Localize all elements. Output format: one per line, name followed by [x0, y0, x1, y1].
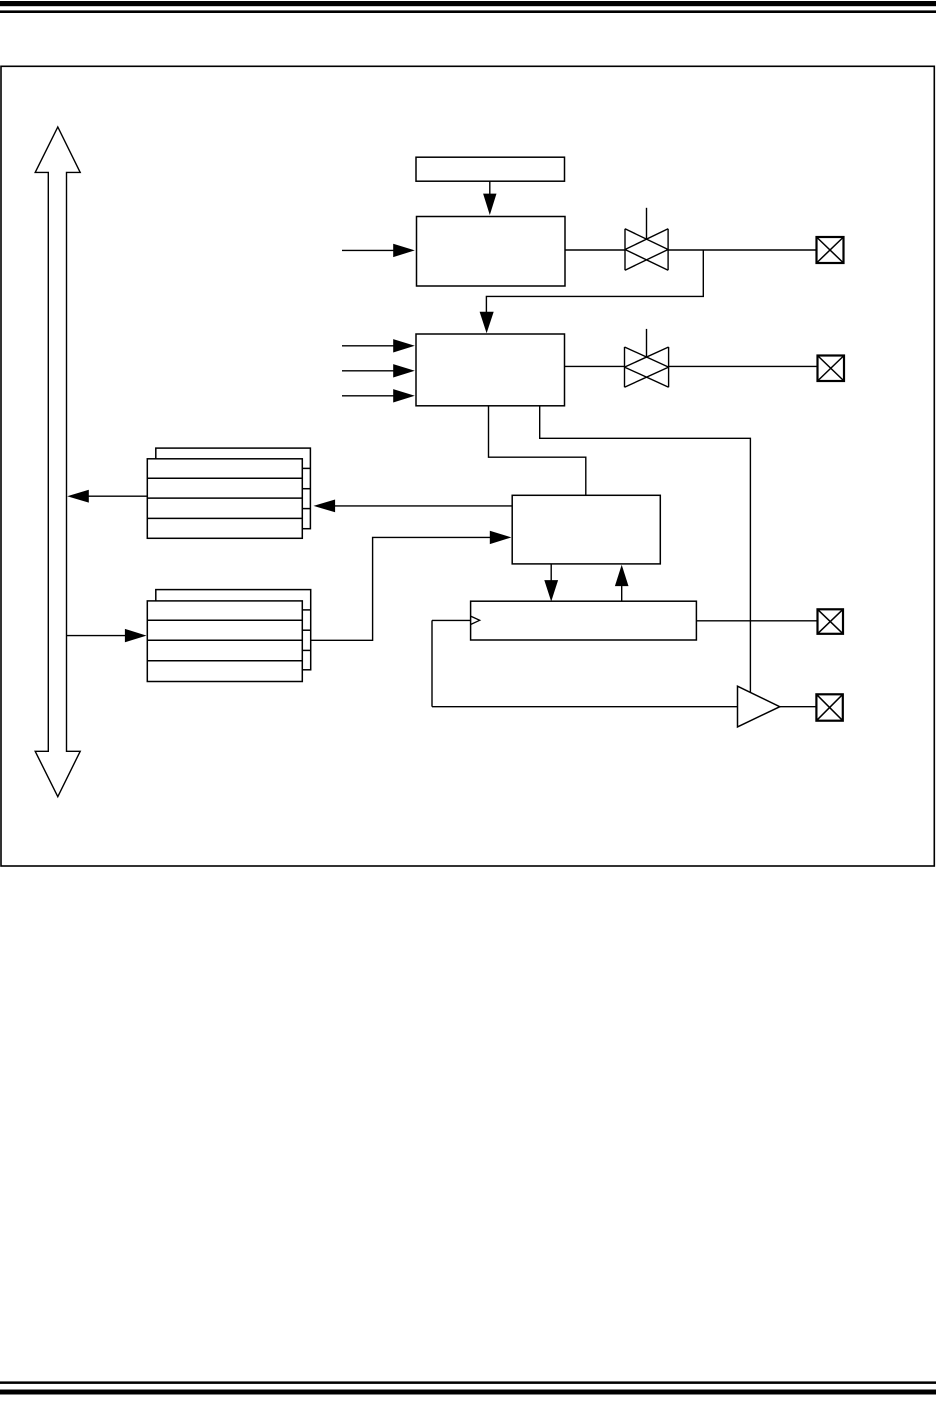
top rule thick — [0, 1, 936, 6]
arrowhead into B3 top — [480, 312, 494, 334]
amplifier A1 (triangle) — [738, 686, 780, 727]
diagram frame — [1, 66, 934, 866]
wire S1 to bus — [88, 495, 147, 497]
wire B1 to B2 — [489, 181, 491, 196]
arrowhead into bus (left) — [67, 490, 89, 503]
wire feedback to amplifier — [432, 706, 738, 708]
block B3 — [416, 334, 565, 406]
wire B5 up to B4 — [621, 585, 623, 601]
block B4 — [512, 495, 660, 564]
bottom rule thin — [0, 1381, 936, 1384]
stack S2 edge tick 3 — [302, 649, 310, 651]
stack S1 edge tick 1 — [302, 467, 310, 469]
port P2 (crossed box) — [818, 356, 845, 382]
port P4 (crossed box) — [816, 694, 842, 720]
wire A1 to port P4 — [780, 706, 816, 708]
wire V2 to port P2 — [669, 365, 817, 367]
top rule thin — [0, 10, 936, 13]
block B2 — [417, 217, 566, 287]
arrowhead into B2 left — [393, 244, 415, 257]
wire B4 to S1 — [334, 505, 512, 507]
arrowhead into B4 bottom (up arrow) — [615, 565, 629, 586]
input wire 1 into B3 — [342, 345, 395, 347]
input wire 2 into B3 — [342, 370, 395, 372]
bottom rule thick — [0, 1390, 936, 1395]
arrowhead into B4 left — [490, 531, 512, 544]
wire S2 to B4 — [311, 537, 492, 640]
valve V1 — [625, 208, 668, 270]
bus arrow (tall vertical double-headed arrow) — [35, 127, 80, 797]
stack S2 row divider 3 — [147, 660, 302, 662]
port P3 (crossed box) — [818, 609, 844, 634]
stack S1 edge tick 2 — [302, 488, 310, 490]
wire bus to S2 — [67, 635, 127, 637]
wire B4 down to B5 — [550, 564, 552, 581]
open arrowhead at B5 clock input — [471, 616, 480, 624]
stack S2 edge tick 2 — [302, 629, 310, 631]
stack S1 row divider 2 — [147, 497, 302, 499]
wire B5 to port P3 — [696, 620, 817, 622]
stack S2 edge tick 1 — [302, 609, 310, 611]
wire B3 bottom-left to B4 top — [489, 406, 586, 496]
wire feedback vertical — [431, 620, 433, 706]
stack S1 back plate — [156, 448, 311, 529]
arrowhead 2 into B3 — [393, 364, 415, 377]
arrowhead into B2 top — [483, 194, 496, 215]
arrowhead into B5 top — [544, 580, 558, 601]
stack S2 row divider 1 — [147, 619, 302, 621]
arrowhead 3 into B3 — [393, 389, 415, 402]
stack S1 front plate — [147, 459, 302, 539]
port P1 (crossed box) — [817, 237, 844, 263]
wire V1 to port P1 — [668, 249, 816, 251]
stack S1 row divider 1 — [147, 477, 302, 479]
stack S2 front plate — [147, 601, 302, 682]
stack S1 row divider 3 — [147, 517, 302, 519]
stack S2 row divider 2 — [147, 639, 302, 641]
input wire 3 into B3 — [342, 395, 395, 397]
wire B2 to valve V1 — [565, 249, 625, 251]
arrowhead into S2 (right) — [125, 629, 147, 642]
stack S1 edge tick 3 — [302, 508, 310, 510]
block B1 (top small box) — [416, 157, 565, 181]
wire B3 to valve V2 — [565, 365, 625, 367]
wire B3 bottom-right to amplifier — [540, 406, 751, 693]
valve V2 — [625, 329, 669, 387]
wire into B5 left — [432, 619, 471, 621]
block B5 (long box) — [471, 601, 697, 640]
stack S2 back plate — [156, 590, 311, 670]
input wire into B2 — [342, 249, 395, 251]
wire branch from V1 output down and left — [486, 250, 703, 313]
arrowhead 1 into B3 — [393, 339, 415, 352]
arrowhead into S1 (left) — [314, 500, 336, 513]
